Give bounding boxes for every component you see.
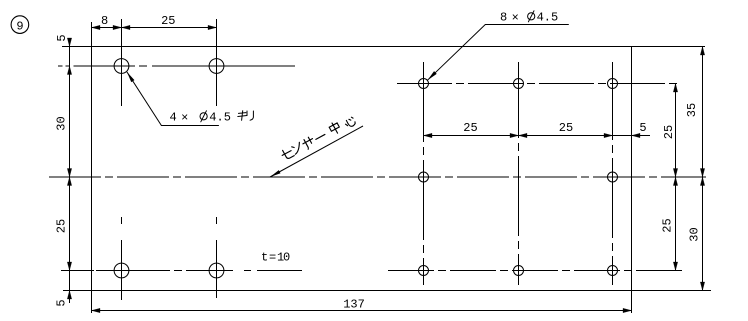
svg-text:137: 137	[343, 298, 365, 312]
svg-text:4.5: 4.5	[537, 11, 559, 25]
svg-text:4: 4	[170, 111, 177, 125]
svg-text:5: 5	[639, 121, 646, 135]
svg-text:t=10: t=10	[261, 251, 290, 265]
svg-text:25: 25	[463, 121, 477, 135]
svg-text:9: 9	[16, 20, 23, 34]
svg-text:25: 25	[662, 125, 676, 139]
svg-text:4.5: 4.5	[209, 111, 231, 125]
svg-text:30: 30	[688, 227, 702, 241]
svg-text:25: 25	[559, 121, 573, 135]
svg-text:8: 8	[500, 11, 507, 25]
svg-text:25: 25	[661, 218, 675, 232]
svg-text:30: 30	[55, 116, 69, 130]
svg-text:25: 25	[55, 219, 69, 233]
svg-text:×: ×	[512, 11, 519, 25]
svg-text:5: 5	[55, 34, 69, 41]
svg-text:35: 35	[685, 103, 699, 117]
svg-text:25: 25	[161, 14, 175, 28]
svg-text:8: 8	[101, 14, 108, 28]
svg-text:5: 5	[55, 299, 69, 306]
svg-text:×: ×	[181, 111, 188, 125]
